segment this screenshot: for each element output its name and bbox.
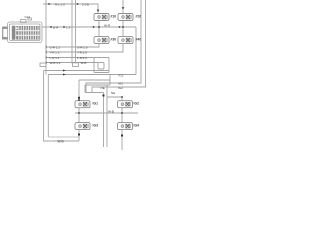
- svg-text:W-B 1.2: W-B 1.2: [50, 61, 61, 65]
- svg-text:R-L 2.0: R-L 2.0: [55, 2, 65, 6]
- svg-text:W-B: W-B: [58, 139, 64, 143]
- wire injector4 top riser: [122, 27, 124, 37]
- wire vertical rail x46 from top: [45, 0, 47, 75]
- wire coil8 bottom offpage: [121, 130, 123, 150]
- svg-text:2.0 B: 2.0 B: [82, 2, 89, 6]
- svg-text:L-R 2.0: L-R 2.0: [77, 56, 87, 60]
- svg-text:IG1: IG1: [93, 102, 99, 106]
- coil U8: [118, 123, 133, 130]
- svg-text:W-R: W-R: [104, 23, 111, 27]
- wire injector2 bottom drop: [122, 21, 124, 28]
- wire staple y92.5 to pair: [85, 92, 104, 94]
- wire pair x72/x75.5 from top: [71, 0, 73, 64]
- svg-text:G-R 2.0: G-R 2.0: [77, 46, 88, 50]
- svg-text:W-B: W-B: [81, 61, 87, 65]
- injector U4: [118, 37, 133, 44]
- wire x136 drop from rail y27: [135, 27, 137, 75]
- connector top tab: [21, 20, 27, 23]
- svg-text:Y-R 1.2: Y-R 1.2: [50, 51, 60, 55]
- connector C1 body: [8, 18, 43, 43]
- injector U3: [94, 37, 109, 44]
- wire pair x103.5 down: [103, 93, 105, 148]
- svg-text:C24: C24: [25, 15, 31, 19]
- svg-text:B-R: B-R: [53, 25, 59, 29]
- svg-text:IG4: IG4: [134, 124, 140, 128]
- svg-text:#30: #30: [111, 38, 117, 42]
- wire bus y70.5: [44, 70, 109, 72]
- svg-text:NE: NE: [111, 91, 115, 95]
- wire coil5 bottom: [78, 108, 80, 113]
- wire left wrap inner x47.5 down: [47, 75, 49, 138]
- wire coil7 bottom drop: [78, 130, 80, 141]
- injector U1: [94, 14, 109, 21]
- wire arrows: [63, 7, 124, 136]
- coil U7: [75, 123, 90, 130]
- inline connector small box left: [40, 63, 46, 66]
- inline connector on row y62: [73, 63, 79, 67]
- svg-text:W-B: W-B: [108, 110, 114, 114]
- wire left wrap outer x43.5 down to bottom: [44, 71, 79, 142]
- wire staple right drop: [109, 75, 111, 86]
- connector pin grid white separations: [16, 26, 39, 39]
- svg-text:#20: #20: [136, 15, 142, 19]
- connector left bracket: [2, 27, 7, 40]
- wire injector4 bottom to row y52: [46, 44, 123, 52]
- svg-text:IG2: IG2: [118, 86, 123, 90]
- wire coil6 bottom: [121, 108, 123, 113]
- wire right rail x145.5: [92, 0, 146, 93]
- wire injector3 bottom to row y47: [46, 44, 99, 47]
- coil U5: [75, 101, 90, 108]
- wire injector 2 top feed x126: [122, 0, 124, 14]
- wire pair x107 down: [106, 85, 108, 147]
- row start ticks: [45, 46, 47, 64]
- wire loop outer: [94, 58, 109, 73]
- wire coil8 top: [121, 113, 123, 123]
- wire injector3 top riser: [98, 27, 100, 37]
- wire loop inner: [98, 63, 104, 70]
- junction dots: [48, 3, 124, 114]
- svg-text:#10: #10: [111, 15, 117, 19]
- svg-text:IG2: IG2: [134, 102, 140, 106]
- injector U2: [118, 14, 133, 21]
- svg-text:G-R 1.2: G-R 1.2: [50, 46, 61, 50]
- wire bus y74.5: [48, 74, 136, 76]
- wire staple y85: [85, 84, 110, 86]
- svg-text:IG2: IG2: [118, 81, 123, 85]
- svg-text:#40: #40: [136, 38, 142, 42]
- wire row y57.5: [46, 57, 94, 59]
- wire row y62.5: [46, 62, 98, 64]
- wire injector1 bottom drop: [98, 21, 100, 28]
- connector pin grid: [12, 26, 40, 40]
- wire top row y4 to injector 1: [43, 4, 98, 14]
- svg-text:L-R 1.2: L-R 1.2: [50, 56, 60, 60]
- coil U6: [118, 101, 133, 108]
- svg-text:1.2: 1.2: [66, 25, 71, 29]
- svg-text:Y-R 2.0: Y-R 2.0: [77, 51, 87, 55]
- wire mid rail y113: [75, 112, 138, 114]
- wire coil7 top: [78, 113, 80, 123]
- wire coil6 top feed: [107, 97, 122, 101]
- svg-text:IG3: IG3: [93, 124, 99, 128]
- wire right rail x141: [86, 0, 141, 93]
- wire step corner to coil5: [79, 79, 110, 81]
- svg-text:NE: NE: [101, 86, 105, 90]
- svg-text:IG2: IG2: [119, 73, 124, 77]
- wire common rail y27: [42, 26, 136, 28]
